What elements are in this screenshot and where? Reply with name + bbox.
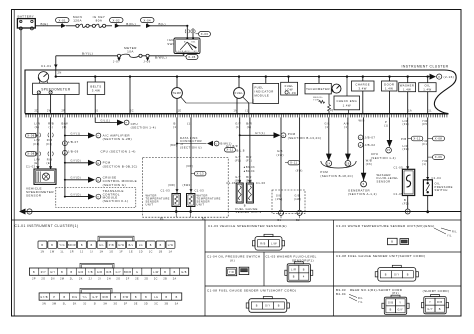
svg-text:1C: 1C xyxy=(149,250,153,253)
svg-text:M: M xyxy=(282,135,284,137)
svg-text:R/B: R/B xyxy=(47,158,53,162)
svg-text:G: G xyxy=(136,271,138,274)
svg-text:Y/R: Y/R xyxy=(422,119,428,123)
svg-text:1N: 1N xyxy=(234,110,238,113)
svg-text:1.4W: 1.4W xyxy=(289,92,297,95)
svg-text:B: B xyxy=(184,41,186,43)
svg-text:C1-08 FUEL GAUGE SENDER UNIT(S: C1-08 FUEL GAUGE SENDER UNIT(SHORT CORD) xyxy=(207,288,296,292)
svg-text:GY/B: GY/B xyxy=(40,296,48,299)
temperature gauge M2 xyxy=(172,77,186,114)
svg-text:1E: 1E xyxy=(129,250,133,253)
svg-text:(1): (1) xyxy=(49,125,54,129)
svg-text:C1-05: C1-05 xyxy=(394,165,404,169)
lamp CHARGE 3.4W xyxy=(352,77,375,114)
svg-text:1R: 1R xyxy=(70,250,74,253)
svg-text:X-11: X-11 xyxy=(226,148,233,152)
svg-text:2A: 2A xyxy=(173,278,177,281)
svg-text:E: E xyxy=(97,197,99,199)
svg-text:G/B: G/B xyxy=(181,271,186,274)
svg-text:(F1): (F1) xyxy=(246,159,253,163)
svg-text:C1-03: C1-03 xyxy=(161,188,171,192)
svg-text:(F6): (F6) xyxy=(366,162,373,166)
dashed short cord box xyxy=(272,190,305,214)
svg-text:(F2): (F2) xyxy=(403,202,410,206)
svg-text:1I: 1I xyxy=(90,250,93,253)
svg-text:1E: 1E xyxy=(178,110,182,113)
svg-text:J/B-07: J/B-07 xyxy=(68,140,79,144)
PCM connector shell xyxy=(320,161,356,178)
svg-text:1L: 1L xyxy=(428,110,432,113)
junction J-09 xyxy=(143,58,150,64)
svg-text:C1-03 VEHICLE SPEEDOMETER SENS: C1-03 VEHICLE SPEEDOMETER SENSOR(E) xyxy=(208,224,287,228)
svg-text:(6W): (6W) xyxy=(168,183,175,187)
svg-text:1B: 1B xyxy=(159,250,163,253)
svg-text:(1): (1) xyxy=(236,125,241,129)
svg-text:LOCK: LOCK xyxy=(176,51,183,53)
svg-text:B: B xyxy=(41,244,43,247)
lamp BELTS 3.4W xyxy=(87,77,104,114)
svg-text:G/L: G/L xyxy=(325,121,331,125)
svg-text:(F1): (F1) xyxy=(235,159,242,163)
svg-text:LG: LG xyxy=(154,296,158,299)
svg-text:(SECTION 1-4): (SECTION 1-4) xyxy=(131,126,157,130)
svg-text:CPU (SECTION 1-4): CPU (SECTION 1-4) xyxy=(101,149,136,153)
svg-text:G/B: G/B xyxy=(277,149,283,153)
svg-text:(1): (1) xyxy=(384,123,389,127)
svg-text:UNIT: UNIT xyxy=(146,203,154,207)
svg-text:1W: 1W xyxy=(50,250,55,253)
connector X-06 oil xyxy=(428,155,445,160)
table grid xyxy=(12,220,462,316)
wire branch to transaxle control module xyxy=(56,188,136,208)
svg-text:(F1): (F1) xyxy=(46,142,53,146)
svg-text:(1): (1) xyxy=(245,110,249,113)
svg-text:R/B: R/B xyxy=(106,271,111,274)
svg-text:H: H xyxy=(97,180,99,182)
svg-text:B: B xyxy=(150,244,152,247)
svg-text:B: B xyxy=(91,244,93,247)
svg-text:3M: 3M xyxy=(52,302,56,305)
svg-text:X-02: X-02 xyxy=(113,18,121,22)
wire B/Y(L) to cluster xyxy=(56,52,118,70)
svg-text:B: B xyxy=(164,271,166,274)
svg-text:1N: 1N xyxy=(40,250,44,253)
svg-text:P/W: P/W xyxy=(123,296,129,299)
svg-text:3J: 3J xyxy=(83,302,87,305)
svg-text:X-11: X-11 xyxy=(290,161,297,165)
water temperature sender unit 1 xyxy=(146,194,181,207)
svg-text:(BW): (BW) xyxy=(170,144,177,147)
svg-text:B(FL): B(FL) xyxy=(126,22,136,26)
svg-text:Y/R: Y/R xyxy=(422,159,428,163)
svg-text:A: A xyxy=(64,152,66,155)
svg-text:(1): (1) xyxy=(325,125,330,129)
svg-text:TOR: TOR xyxy=(313,100,319,102)
svg-text:J-07: J-07 xyxy=(113,60,120,64)
connector X-08 xyxy=(26,152,54,166)
svg-text:2D: 2D xyxy=(35,110,39,113)
svg-text:B/L: B/L xyxy=(129,244,134,247)
svg-text:G/Y(D): G/Y(D) xyxy=(71,194,81,197)
washer fluid-level sensor xyxy=(377,165,415,196)
cluster pin comb xyxy=(26,115,447,118)
svg-text:15: 15 xyxy=(387,149,391,152)
wire belts warning to CPU xyxy=(95,117,156,129)
wire fuel signal to PCM xyxy=(239,132,322,140)
svg-text:B: B xyxy=(390,309,392,312)
svg-text:2P: 2P xyxy=(32,278,36,281)
svg-text:A: A xyxy=(29,211,31,214)
svg-text:B: B xyxy=(145,296,147,299)
svg-text:U: U xyxy=(216,144,218,146)
svg-text:5: 5 xyxy=(363,182,365,186)
connector X-05 below switch xyxy=(184,55,198,60)
svg-text:(1): (1) xyxy=(187,122,192,126)
svg-text:B/L,B: B/L,B xyxy=(237,149,245,152)
svg-text:R/Y: R/Y xyxy=(41,271,46,274)
ground temp senders xyxy=(160,207,206,221)
svg-text:(E): (E) xyxy=(47,161,52,165)
svg-text:Y/R: Y/R xyxy=(422,139,428,143)
svg-text:Y/B: Y/B xyxy=(88,271,93,274)
svg-text:X-04: X-04 xyxy=(144,18,152,22)
svg-text:(SECTION B-0B,2C): (SECTION B-0B,2C) xyxy=(103,165,138,169)
svg-text:3.4W: 3.4W xyxy=(359,86,367,90)
svg-text:B: B xyxy=(165,296,167,299)
svg-text:G/Y: G/Y xyxy=(397,309,403,312)
svg-text:J-09: J-09 xyxy=(143,60,150,64)
wire door signal to CPU xyxy=(371,117,396,159)
oil switch ground xyxy=(426,196,429,214)
svg-text:X-13: X-13 xyxy=(197,172,205,176)
fuse METER 10A xyxy=(117,46,149,57)
svg-text:X-03: X-03 xyxy=(201,32,209,36)
svg-text:3G: 3G xyxy=(113,302,117,305)
svg-text:SWITCH: SWITCH xyxy=(435,188,448,192)
svg-text:(K): (K) xyxy=(230,258,235,262)
svg-text:1F: 1F xyxy=(119,250,123,253)
svg-text:G/Y: G/Y xyxy=(235,155,241,159)
svg-text:2C: 2C xyxy=(130,110,134,113)
svg-text:L/R: L/R xyxy=(291,268,296,271)
svg-text:B: B xyxy=(71,271,73,274)
svg-text:1A: 1A xyxy=(408,110,412,113)
svg-text:1.4W: 1.4W xyxy=(423,87,431,91)
svg-text:J/B-07: J/B-07 xyxy=(365,136,376,140)
wire speed signal trunk xyxy=(62,117,69,197)
svg-text:B(E): B(E) xyxy=(41,22,49,26)
svg-text:B: B xyxy=(303,268,305,271)
svg-text:R/B: R/B xyxy=(437,301,443,304)
svg-text:(1W): (1W) xyxy=(277,153,284,157)
svg-text:(SECTION B-18,2C): (SECTION B-18,2C) xyxy=(320,174,353,178)
svg-text:SENSOR: SENSOR xyxy=(26,194,42,198)
wire temp sender 2 xyxy=(183,117,205,193)
svg-text:B: B xyxy=(33,271,35,274)
panel C1-04 oil pressure switch xyxy=(207,255,260,276)
svg-text:4: 4 xyxy=(303,276,305,279)
connector X-13 xyxy=(191,171,206,176)
svg-text:B: B xyxy=(176,296,178,299)
svg-text:2B: 2B xyxy=(346,163,350,166)
water temperature sender unit 2 xyxy=(187,194,221,207)
svg-text:(SECTION 1-4): (SECTION 1-4) xyxy=(371,156,396,160)
svg-text:W/B: W/B xyxy=(102,296,108,299)
connector C1-01 entry xyxy=(41,64,58,68)
svg-text:3.4W: 3.4W xyxy=(92,89,101,93)
svg-text:(1W): (1W) xyxy=(294,198,301,201)
fuel indicator module U1 xyxy=(253,77,279,104)
svg-text:BATTERY: BATTERY xyxy=(18,15,35,19)
ignition switch SW1 xyxy=(167,37,200,54)
svg-text:(F1): (F1) xyxy=(422,142,429,146)
svg-text:G/R: G/R xyxy=(78,271,84,274)
svg-text:MODULE: MODULE xyxy=(255,94,270,98)
svg-text:(E): (E) xyxy=(34,161,39,165)
wire temp sender 1 xyxy=(161,117,179,193)
svg-text:SENDER UNITS: SENDER UNITS xyxy=(235,210,261,214)
connector X-08 oil xyxy=(428,136,445,141)
svg-text:B: B xyxy=(64,296,66,299)
wire fuel sender B/R xyxy=(246,117,252,183)
svg-text:(1): (1) xyxy=(173,125,178,129)
svg-text:(1): (1) xyxy=(247,125,252,129)
svg-text:ST: ST xyxy=(194,51,198,53)
wire ignition switch drops xyxy=(185,26,195,38)
svg-text:3E: 3E xyxy=(134,302,138,305)
svg-text:Y: Y xyxy=(429,301,431,304)
connector X-01 xyxy=(56,18,70,28)
wire R/B speed sensor xyxy=(48,117,54,169)
wire short cord ground 2 xyxy=(294,117,303,222)
data link connector branch xyxy=(170,136,232,150)
svg-text:3H: 3H xyxy=(103,302,107,305)
svg-text:C1-01: C1-01 xyxy=(41,64,51,68)
svg-text:BR/B: BR/B xyxy=(124,271,131,274)
continuation arrow (2-16) xyxy=(430,74,455,80)
svg-text:B4-04: B4-04 xyxy=(336,292,346,296)
svg-text:G/Y: G/Y xyxy=(265,305,271,308)
wire tach signal to PCM xyxy=(325,117,332,160)
svg-text:1A: 1A xyxy=(169,250,173,253)
svg-text:CHECK ENG: CHECK ENG xyxy=(336,99,357,103)
svg-text:1H: 1H xyxy=(100,250,104,253)
svg-text:B: B xyxy=(135,296,137,299)
battery B+ xyxy=(17,15,35,30)
svg-text:B: B xyxy=(293,276,295,279)
svg-text:(1): (1) xyxy=(62,125,67,129)
wire cluster drop 2C xyxy=(130,77,134,114)
svg-text:(2-16): (2-16) xyxy=(444,75,455,79)
svg-text:3K: 3K xyxy=(73,302,77,305)
svg-text:ACC: ACC xyxy=(185,50,191,53)
svg-text:2E: 2E xyxy=(135,278,139,281)
wire washer lamp to sensor xyxy=(403,117,410,169)
connector row 2 xyxy=(29,263,188,280)
wire branch to A/C amplifier xyxy=(65,132,132,141)
connector X-11 fuel xyxy=(225,145,253,163)
svg-text:Y/R: Y/R xyxy=(229,271,234,274)
svg-text:(P1): (P1) xyxy=(392,291,399,295)
svg-text:1.4W: 1.4W xyxy=(385,86,393,90)
svg-text:3J: 3J xyxy=(95,110,99,113)
svg-text:C1-01 INSTRUMENT CLUSTER(1): C1-01 INSTRUMENT CLUSTER(1) xyxy=(15,224,79,228)
connector row 1 xyxy=(38,236,175,253)
svg-text:B: B xyxy=(385,274,387,277)
junction J-07 xyxy=(113,58,121,64)
svg-text:2O: 2O xyxy=(41,278,45,281)
svg-text:3I: 3I xyxy=(94,302,97,305)
fusible link IG KEY 80A xyxy=(92,15,112,28)
svg-text:B: B xyxy=(61,271,63,274)
connector X-02 xyxy=(110,18,124,28)
svg-text:G/Y: G/Y xyxy=(235,175,241,179)
svg-text:R/L: R/L xyxy=(358,297,363,300)
svg-text:3N: 3N xyxy=(42,302,46,305)
svg-text:G/Y: G/Y xyxy=(116,271,121,274)
svg-text:SPEEDOMETER: SPEEDOMETER xyxy=(41,88,71,92)
svg-text:A/B: A/B xyxy=(344,121,350,125)
svg-text:R/B: R/B xyxy=(47,138,53,142)
svg-text:A: A xyxy=(360,144,362,147)
svg-text:M: M xyxy=(97,163,99,165)
svg-text:G/P: G/P xyxy=(92,296,97,299)
svg-text:2M: 2M xyxy=(60,278,64,281)
svg-text:2L: 2L xyxy=(70,278,74,281)
lamp FUEL LOW xyxy=(281,77,298,95)
panel C3-08 fuel gauge sender unit short cord xyxy=(336,254,425,281)
svg-text:1D: 1D xyxy=(139,250,143,253)
svg-text:(SECTION G): (SECTION G) xyxy=(103,183,126,187)
svg-text:(6W): (6W) xyxy=(296,170,303,173)
svg-text:R/G: R/G xyxy=(72,296,78,299)
wire charge to generator xyxy=(358,117,375,181)
svg-text:IG1: IG1 xyxy=(191,41,196,43)
svg-text:B/R: B/R xyxy=(246,155,252,159)
svg-text:2G: 2G xyxy=(116,278,120,281)
svg-text:X-08: X-08 xyxy=(435,137,443,141)
svg-text:WASHER: WASHER xyxy=(400,84,414,88)
svg-text:3D: 3D xyxy=(144,302,148,305)
svg-text:2K: 2K xyxy=(79,278,83,281)
panel C1-08 fuel gauge sender unit xyxy=(207,288,296,312)
svg-text:FUEL: FUEL xyxy=(235,91,244,95)
svg-text:G/Y: G/Y xyxy=(394,274,400,277)
svg-text:F: F xyxy=(98,136,100,138)
svg-text:UNIT: UNIT xyxy=(197,203,205,207)
svg-text:P/B: P/B xyxy=(401,137,407,141)
svg-text:J/B-09: J/B-09 xyxy=(68,150,79,154)
svg-text:P: P xyxy=(126,123,128,125)
svg-text:X-11: X-11 xyxy=(413,137,420,141)
svg-text:B: B xyxy=(404,198,406,202)
svg-text:(SECTION G-2B): (SECTION G-2B) xyxy=(103,137,132,141)
lamp DOOR 1.4W xyxy=(382,77,398,114)
connector X-11 b xyxy=(285,160,300,165)
svg-text:(SECTION B-13,2C): (SECTION B-13,2C) xyxy=(288,136,322,140)
fuel gauge M3 xyxy=(234,77,250,114)
instrument cluster box xyxy=(25,65,456,114)
lamp WASHER 1.4W xyxy=(399,77,416,114)
svg-text:C1-06: C1-06 xyxy=(226,181,236,185)
wire short cord ground 1 xyxy=(275,117,284,222)
wire branch to PCM xyxy=(65,160,138,169)
svg-text:L/W: L/W xyxy=(168,244,174,247)
junction J/B-09 xyxy=(63,150,79,156)
node CPU label xyxy=(101,149,136,153)
svg-text:1.4W: 1.4W xyxy=(403,87,411,91)
svg-text:B3-03: B3-03 xyxy=(336,288,346,292)
svg-text:L/W: L/W xyxy=(271,243,277,246)
tachometer M4 xyxy=(305,77,341,94)
svg-text:1J: 1J xyxy=(80,250,84,253)
svg-text:G/Y(1): G/Y(1) xyxy=(255,132,265,135)
wire B(FL) xyxy=(119,22,141,26)
svg-text:(6W): (6W) xyxy=(186,164,193,168)
svg-text:G/L: G/L xyxy=(99,244,104,247)
ground bus xyxy=(24,211,461,213)
fuel gauge sender unit 1 xyxy=(226,180,243,203)
svg-text:(F5): (F5) xyxy=(422,122,429,126)
svg-text:3F: 3F xyxy=(124,302,128,305)
svg-text:(1W): (1W) xyxy=(275,198,282,201)
svg-text:L/W: L/W xyxy=(34,138,40,142)
svg-text:80A: 80A xyxy=(96,19,103,23)
svg-text:(SECTION K-1): (SECTION K-1) xyxy=(103,199,129,203)
connector X-03 xyxy=(196,32,211,37)
svg-text:1L: 1L xyxy=(60,250,64,253)
svg-text:TACHOMETER: TACHOMETER xyxy=(306,87,330,91)
svg-text:2I: 2I xyxy=(98,278,101,281)
svg-text:B: B xyxy=(256,305,258,308)
vehicle speedometer sensor xyxy=(26,165,56,198)
svg-text:(F1): (F1) xyxy=(403,122,410,126)
svg-text:G/W: G/W xyxy=(118,244,124,247)
svg-text:2B: 2B xyxy=(163,278,167,281)
junction J/B-07 xyxy=(63,140,79,146)
svg-text:2F: 2F xyxy=(126,278,130,281)
svg-text:R/L: R/L xyxy=(452,231,457,234)
svg-text:B: B xyxy=(174,271,176,274)
wire oil lamp to switch xyxy=(422,117,429,181)
node ignition feed junction xyxy=(186,25,188,27)
svg-text:G/Y(D): G/Y(D) xyxy=(71,160,81,163)
wire check eng to PCM xyxy=(344,117,351,160)
svg-text:B/Y(L): B/Y(L) xyxy=(82,52,93,56)
svg-text:(1): (1) xyxy=(422,162,427,166)
svg-text:(1): (1) xyxy=(35,125,40,129)
svg-text:◄B4-04: ◄B4-04 xyxy=(243,170,255,173)
svg-text:P: P xyxy=(385,120,387,124)
svg-text:(6W2): (6W2) xyxy=(183,183,192,187)
svg-text:3B: 3B xyxy=(165,302,169,305)
oil pressure switch S1 xyxy=(423,176,452,196)
svg-text:B: B xyxy=(81,244,83,247)
svg-text:D: D xyxy=(64,143,66,145)
svg-text:J/B-02: J/B-02 xyxy=(365,143,376,147)
svg-text:C3-08 FUEL GAUGE SENDER UNIT(S: C3-08 FUEL GAUGE SENDER UNIT(SHORT CORD) xyxy=(336,254,425,258)
svg-text:2W: 2W xyxy=(47,110,52,113)
svg-text:W/B: W/B xyxy=(359,118,365,122)
panel C3-03 water temperature sender unit xyxy=(336,224,457,245)
svg-text:G/B: G/B xyxy=(388,302,394,305)
connector X-06 xyxy=(26,133,54,146)
fuel gauge sender unit 2 xyxy=(246,180,265,203)
svg-text:R/B: R/B xyxy=(260,243,266,246)
svg-text:X-08: X-08 xyxy=(27,152,35,156)
svg-text:G/Y(1): G/Y(1) xyxy=(71,132,81,135)
svg-text:2C: 2C xyxy=(154,278,158,281)
